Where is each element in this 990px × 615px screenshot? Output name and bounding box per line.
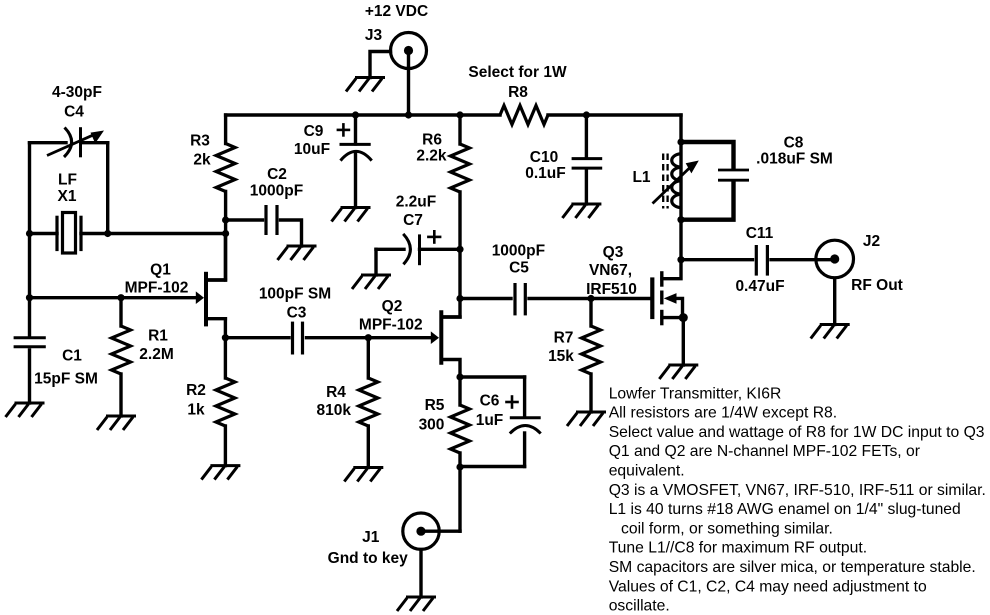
svg-text:R6: R6 [422,132,442,149]
svg-text:Q3: Q3 [603,244,624,261]
svg-text:Values of C1, C2, C4 may need: Values of C1, C2, C4 may need adjustment… [609,578,927,595]
wire C7 ground stem [374,249,377,275]
svg-text:coil form, or something simila: coil form, or something similar. [621,520,833,537]
capacitor C9 10uF electrolytic [340,144,372,160]
wire Q1 source riser [224,319,227,338]
svg-text:J2: J2 [863,233,880,250]
svg-text:15pF SM: 15pF SM [34,371,98,388]
wire L1 bottom to drain node [679,220,682,260]
wire C9 branch [354,115,357,144]
wire crystal row right [81,232,226,235]
wire C11 row left [681,258,753,261]
svg-text:.018uF SM: .018uF SM [756,151,833,168]
inductor L1 [672,154,681,208]
wire Q1 source lead [208,317,226,320]
node dots [26,111,688,470]
wire Q2 source lead [444,360,460,378]
connector J3 [391,33,427,69]
capacitor C8 .018uF [718,170,749,180]
svg-text:R8: R8 [508,84,528,101]
wire C5 row left [460,297,511,300]
wire R5 stem bottom [458,453,461,467]
resistor R1 2.2M [112,326,131,374]
wire +12V rail left of R8 [226,113,500,116]
svg-text:oscillate.: oscillate. [609,598,670,615]
transistor Q3 VMOSFET [652,271,662,325]
wire R5 C6 bottom bar [460,465,525,468]
svg-text:C5: C5 [509,260,529,277]
L1 slug dashed lines [663,154,667,209]
svg-text:C8: C8 [784,135,804,152]
wire R1 branch [119,298,122,326]
svg-text:MPF-102: MPF-102 [125,280,189,297]
svg-text:100pF SM: 100pF SM [259,286,331,303]
svg-text:2.2uF: 2.2uF [396,194,436,211]
ground under C7 [352,275,391,289]
capacitor C2 1000pF [266,205,277,235]
wire C3 row left [226,336,289,339]
wire L1 vertical [679,142,682,220]
svg-text:0.1uF: 0.1uF [525,165,565,182]
wire R5 stem top [458,377,461,405]
capacitor C1 15pF [14,338,46,347]
ground under Q3 source [659,365,698,379]
wire J1 arm [421,530,460,533]
wire rail right corner down [679,115,682,142]
svg-text:Select value and wattage of R8: Select value and wattage of R8 for 1W DC… [609,424,985,441]
svg-text:810k: 810k [317,402,352,419]
svg-text:Q1: Q1 [150,262,171,279]
wire J3 ground arm [370,52,391,78]
wire left loop vertical [28,143,31,298]
transistor Q2 MPF-102 [439,310,443,365]
svg-text:Q1 and Q2 are N-channel MPF-10: Q1 and Q2 are N-channel MPF-102 FETs, or [609,443,920,460]
wire C3 row right / Q2 gate [307,336,433,339]
svg-text:R7: R7 [554,330,574,347]
svg-text:LF: LF [58,172,77,189]
connector J1 [403,513,439,549]
svg-text:4-30pF: 4-30pF [52,84,102,101]
svg-text:C4: C4 [64,104,84,121]
C8 loop wiring [681,142,734,220]
svg-text:C10: C10 [530,149,558,166]
wire R2 branch [224,338,227,378]
capacitor C6 1uF electrolytic [510,418,541,434]
wire Q1 gate [30,296,198,299]
svg-text:+12 VDC: +12 VDC [365,3,428,20]
wire C6 stem bottom [523,433,526,467]
wire R7 branch [589,299,592,327]
resistor R2 1k [216,378,235,426]
resistor R4 810k [359,378,378,426]
connector J2 [816,240,854,278]
transistor Q1 MPF-102 [206,234,225,327]
wire C6 stem top [523,377,526,416]
plus sign C9 [337,123,351,137]
svg-text:R4: R4 [326,384,346,401]
svg-text:MPF-102: MPF-102 [359,317,423,334]
svg-text:Q2: Q2 [382,298,403,315]
ground under R2 [201,466,240,480]
svg-text:R5: R5 [425,397,445,414]
svg-text:J3: J3 [365,27,383,44]
ground under C1 [6,403,45,417]
svg-text:Gnd to key: Gnd to key [328,550,408,567]
svg-text:300: 300 [419,417,445,434]
capacitor C11 0.47uF [756,245,767,276]
svg-text:2.2k: 2.2k [416,148,447,165]
svg-text:L1: L1 [632,169,650,186]
ground under C9 [332,208,371,222]
ground under R1 [97,416,136,430]
svg-text:R3: R3 [190,133,210,150]
wire C7 branch left [376,248,404,251]
ground under J2 [811,325,850,339]
wire right loop vertical [106,143,109,234]
resistor R7 15k [582,326,601,374]
resistor R3 2k [216,144,235,192]
resistor R5 300 [451,405,470,453]
ground under R4 [344,468,383,482]
svg-text:Q3 is a VMOSFET, VN67, IRF-510: Q3 is a VMOSFET, VN67, IRF-510, IRF-511 … [609,482,986,499]
svg-text:C1: C1 [62,348,82,365]
svg-text:C2: C2 [267,166,287,183]
svg-text:X1: X1 [58,188,77,205]
wire J2 ground stem [833,278,836,325]
svg-text:1000pF: 1000pF [492,243,545,260]
wire C2 branch [226,218,263,221]
svg-text:R1: R1 [148,328,168,345]
svg-text:C3: C3 [287,305,307,322]
svg-text:SM capacitors are silver mica,: SM capacitors are silver mica, or temper… [609,559,976,576]
wire Q2 drain lead [444,315,460,318]
wire R5 C6 top bar [460,375,525,378]
svg-text:IRF510: IRF510 [586,281,637,298]
capacitor C7 2.2uF electrolytic [403,234,419,265]
wire Q3 drain [662,260,681,279]
svg-text:L1 is 40 turns #18 AWG enamel: L1 is 40 turns #18 AWG enamel on 1/4" sl… [609,501,961,518]
wire Q3 source [662,318,683,365]
wire J3 stem [407,51,410,116]
svg-text:C7: C7 [403,212,423,229]
svg-text:equivalent.: equivalent. [609,463,685,480]
svg-text:Select for 1W: Select for 1W [468,64,567,81]
svg-text:0.47uF: 0.47uF [735,278,784,295]
svg-text:C11: C11 [746,225,774,242]
svg-text:15k: 15k [548,348,574,365]
capacitor C5 1000pF [515,283,525,315]
svg-text:Lowfer Transmitter, KI6R: Lowfer Transmitter, KI6R [609,385,782,402]
L1 arrow [653,167,692,204]
svg-text:VN67,: VN67, [589,262,632,279]
svg-text:1uF: 1uF [476,412,504,429]
capacitor C3 100pF [293,322,303,355]
resistor R8 horizontal [500,106,548,125]
ground under J1 [397,597,436,611]
svg-text:C9: C9 [304,123,324,140]
svg-text:10uF: 10uF [294,141,330,158]
svg-text:R2: R2 [186,382,206,399]
wire C5 row right / Q3 gate [529,297,650,300]
svg-text:Tune L1//C8 for maximum RF out: Tune L1//C8 for maximum RF output. [609,540,867,557]
wire top loop C4 right segment [81,141,108,144]
notes text block [609,385,986,614]
wire J1 riser [458,467,461,532]
ground under R7 [567,412,606,426]
ground under C10 [562,204,601,218]
svg-text:J1: J1 [362,529,380,546]
wire Q1 drain riser [208,278,226,281]
svg-text:2.2M: 2.2M [139,346,173,363]
ground under J3 [346,78,385,92]
wire C1 branch [28,298,31,335]
wire Q3 body [676,298,683,317]
wire J1 ground stem [419,550,422,598]
wire +12V rail right of R8 [548,113,681,116]
svg-text:2k: 2k [193,152,211,169]
wire crystal row left [30,232,58,235]
svg-text:RF Out: RF Out [851,277,903,294]
svg-text:1k: 1k [187,402,205,419]
plus sign C7 [427,230,441,244]
capacitor C4 variable [47,127,95,157]
resistor R6 2.2k [451,144,470,192]
capacitor C10 0.1uF [572,159,603,169]
svg-text:All resistors are 1/4W except: All resistors are 1/4W except R8. [609,405,837,422]
wire C7 branch right [420,248,461,251]
wire R3 vertical [224,115,227,144]
plus sign C6 [505,395,519,409]
svg-text:C6: C6 [480,393,500,410]
wire R6 riser [458,115,461,144]
wire C10 branch [585,115,588,157]
ground under C2 [278,246,317,260]
svg-text:1000pF: 1000pF [250,183,303,200]
wire R4 branch [367,338,370,378]
crystal X1 [57,213,81,254]
wire top loop C4 left segment [30,141,67,144]
wire C11 row right [771,258,835,261]
